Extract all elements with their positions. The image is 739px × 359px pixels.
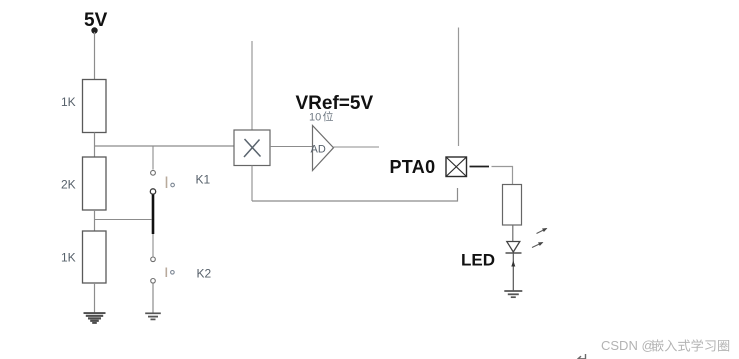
svg-text:K2: K2 — [197, 267, 212, 281]
svg-text:1K: 1K — [61, 251, 76, 265]
svg-text:1K: 1K — [61, 95, 76, 109]
svg-text:2K: 2K — [61, 178, 76, 192]
svg-text:LED: LED — [461, 251, 495, 270]
svg-text:PTA0: PTA0 — [390, 157, 436, 177]
svg-text:CSDN @: CSDN @ — [601, 338, 655, 353]
svg-text:VRef=5V: VRef=5V — [296, 93, 374, 114]
svg-text:K1: K1 — [196, 173, 211, 187]
svg-text:AD: AD — [311, 144, 326, 156]
svg-text:10: 10 — [309, 112, 321, 124]
